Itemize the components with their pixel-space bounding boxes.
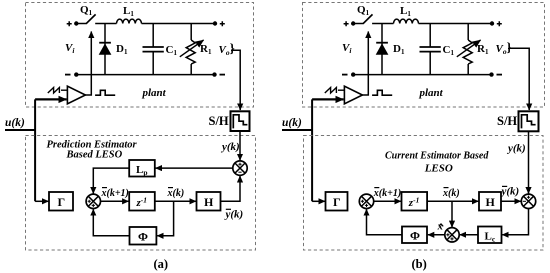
- wire z-1 to H with arrow (a): [155, 200, 196, 202]
- wire bottom rail (b): [353, 74, 491, 76]
- summing junction 3 (b): [445, 228, 459, 242]
- svg-text:y(k): y(k): [220, 141, 240, 153]
- svg-text:u(k): u(k): [282, 117, 302, 129]
- svg-text:Q1: Q1: [80, 4, 93, 17]
- label x(k+1) bar (b): [373, 188, 401, 199]
- label Vo and output wire to S/H (a): [219, 41, 241, 111]
- svg-text:(a): (a): [154, 257, 169, 271]
- svg-text:plant: plant: [142, 87, 167, 99]
- svg-text:x(k+1): x(k+1): [373, 188, 401, 199]
- label (a): [154, 257, 169, 271]
- label Prediction Estimator Based LESO: [47, 140, 138, 161]
- node + terminal top-left (a): [67, 21, 79, 26]
- wire switch to L1 (b): [372, 23, 393, 25]
- node - terminal bottom-left (b): [342, 72, 355, 76]
- label x(k) bar (a): [167, 188, 185, 199]
- wire u(k) to comparator with arrow (b): [312, 98, 343, 100]
- svg-text:u(k): u(k): [5, 117, 25, 129]
- sawtooth symbol (a): [48, 88, 68, 94]
- label y(k) bar lower (a): [224, 209, 244, 221]
- node - terminal bottom-left (a): [65, 72, 79, 76]
- svg-text:Based LESO: Based LESO: [66, 150, 123, 161]
- block gamma (a): [49, 192, 73, 211]
- capacitor C1 (a): [143, 24, 178, 75]
- svg-text:x(k): x(k): [442, 188, 460, 199]
- wire top rail right (a): [142, 23, 216, 25]
- block Phi (b): [402, 227, 427, 244]
- wire junction1 to z-1 with arrow (b): [374, 200, 401, 202]
- block H (a): [197, 192, 221, 211]
- pulse symbol (b): [372, 90, 392, 95]
- svg-text:L1: L1: [400, 5, 411, 18]
- svg-text:x: x: [437, 222, 443, 233]
- svg-text:(b): (b): [412, 257, 427, 271]
- svg-text:Φ: Φ: [138, 230, 148, 244]
- wire Phi to junction1 with arrow (b): [367, 209, 403, 235]
- svg-text:Φ: Φ: [410, 229, 420, 243]
- wire top rail right (b): [419, 23, 493, 25]
- diode D1 (a): [99, 24, 128, 75]
- wire u(k) input (a): [5, 129, 35, 131]
- svg-text:H: H: [204, 195, 214, 209]
- label u(k) (b): [282, 117, 302, 129]
- wire Lp to junction1 with arrow (a): [93, 168, 129, 193]
- label y(k) (a): [220, 141, 240, 153]
- dashed box: LESO (a): [26, 136, 256, 251]
- summing junction 1 (a): [86, 194, 100, 208]
- svg-text:Vo}: Vo}: [219, 41, 235, 58]
- wire Phi to junction1 with arrow (a): [93, 209, 129, 236]
- wire gate drive with up arrow (a): [85, 32, 91, 96]
- wire junction3 to Phi with arrow (b): [428, 234, 445, 236]
- block H (b): [479, 192, 501, 211]
- sample hold S/H (a): [209, 111, 250, 131]
- wire Lc to junction3 with arrow (b): [460, 234, 478, 236]
- svg-text:y(k): y(k): [500, 186, 520, 198]
- svg-text:Γ: Γ: [58, 195, 66, 209]
- svg-text:S/H: S/H: [209, 114, 229, 128]
- node - terminal bottom-right (b): [489, 72, 502, 76]
- wire u(k) bus vertical (b): [311, 99, 313, 201]
- svg-text:LESO: LESO: [424, 163, 453, 175]
- inductor L1 (a): [117, 5, 142, 24]
- svg-text:y(k): y(k): [224, 209, 244, 221]
- svg-text:Current Estimator Based: Current Estimator Based: [385, 151, 489, 162]
- wire u(k) input (b): [282, 129, 312, 131]
- wire bottom rail (a): [76, 74, 214, 76]
- wire z-1 to H with arrow (b): [427, 200, 478, 202]
- wire SH to junction2 with arrow (a): [239, 131, 241, 160]
- resistor R1 variable (a): [180, 24, 212, 75]
- svg-text:R1: R1: [477, 43, 489, 56]
- wire bus to gamma with arrow (a): [35, 200, 48, 202]
- summing junction 2 (b): [521, 194, 535, 208]
- label x(k+1) bar (a): [101, 188, 129, 199]
- block Lp (a): [129, 160, 155, 177]
- wire top rail left (b): [353, 23, 363, 25]
- node + terminal top-left (b): [344, 21, 356, 26]
- svg-text:Γ: Γ: [333, 195, 341, 209]
- label plant (b): [419, 87, 444, 99]
- svg-text:S/H: S/H: [497, 114, 517, 128]
- dashed box: LESO (b): [304, 136, 544, 251]
- node + terminal top-right (a): [213, 21, 225, 26]
- node + terminal top-right (b): [490, 21, 502, 26]
- summing junction 2 (a): [233, 161, 247, 175]
- svg-text:x(k): x(k): [167, 188, 185, 199]
- op-amp comparator (a): [67, 86, 85, 104]
- pulse symbol (a): [95, 90, 115, 95]
- diode D1 (b): [376, 24, 405, 75]
- sample hold S/H (b): [497, 111, 539, 131]
- label y(k) bar (b): [500, 186, 520, 198]
- node - terminal bottom-right (a): [212, 72, 225, 76]
- op-amp comparator (b): [344, 86, 362, 104]
- svg-text:H: H: [486, 195, 496, 209]
- wire gate drive with up arrow (b): [362, 32, 368, 96]
- label y(k) (b): [506, 143, 526, 155]
- block Lc (b): [478, 227, 502, 244]
- svg-text:C1: C1: [166, 44, 178, 57]
- label Vi (a): [65, 42, 75, 55]
- wire bus to gamma with arrow (b): [312, 200, 325, 202]
- wire x(k) feedback to junction3 with arrow (b): [451, 201, 453, 227]
- sawtooth symbol (b): [325, 88, 345, 94]
- wire switch to L1 (a): [95, 23, 116, 25]
- svg-text:D1: D1: [393, 43, 405, 56]
- label plant (a): [142, 87, 167, 99]
- svg-text:plant: plant: [419, 87, 444, 99]
- svg-text:D1: D1: [116, 43, 128, 56]
- label Vo and output wire to S/H (b): [496, 40, 530, 111]
- dashed box: plant (b): [303, 3, 545, 108]
- svg-text:Vi: Vi: [65, 42, 75, 55]
- svg-text:C1: C1: [443, 44, 455, 57]
- capacitor C1 (b): [420, 24, 455, 75]
- wire u(k) bus vertical (a): [34, 99, 36, 201]
- wire junction2 to Lp with arrow (a): [156, 167, 233, 169]
- label Current Estimator Based LESO: [385, 151, 489, 175]
- block gamma (b): [326, 192, 348, 211]
- block z-1 (a): [129, 192, 155, 211]
- block Phi (a): [130, 227, 157, 245]
- wire u(k) to comparator with arrow (a): [35, 98, 66, 100]
- inductor L1 (b): [394, 5, 419, 24]
- block z-1 (b): [402, 192, 428, 211]
- svg-text:x(k+1): x(k+1): [101, 188, 129, 199]
- summing junction 1 (b): [359, 194, 373, 208]
- label (b): [412, 257, 427, 271]
- svg-text:R1: R1: [200, 43, 212, 56]
- wire top rail left (a): [76, 23, 86, 25]
- svg-text:Q1: Q1: [357, 4, 370, 17]
- svg-text:y(k): y(k): [506, 143, 526, 155]
- svg-text:L1: L1: [123, 5, 134, 18]
- dashed box: plant (a): [26, 3, 254, 108]
- label x hat (b): [437, 222, 444, 233]
- wire x(k) feedback to Phi with arrow (a): [157, 201, 174, 236]
- label u(k) (a): [5, 117, 25, 129]
- wire junction1 to z-1 with arrow (a): [101, 200, 129, 202]
- resistor R1 variable (b): [457, 24, 489, 75]
- wire H to junction2 with arrow (b): [501, 200, 521, 202]
- wire junction2 to Lc with arrow (b): [502, 209, 528, 235]
- wire H to junction2 (a): [221, 176, 241, 201]
- label Vi (b): [342, 42, 352, 55]
- label x(k) bar (b): [442, 188, 460, 199]
- switch Q1 (a): [80, 4, 96, 24]
- wire SH to junction2 with arrow (b): [528, 131, 530, 193]
- svg-text:Vi: Vi: [342, 42, 352, 55]
- switch Q1 (b): [357, 4, 373, 24]
